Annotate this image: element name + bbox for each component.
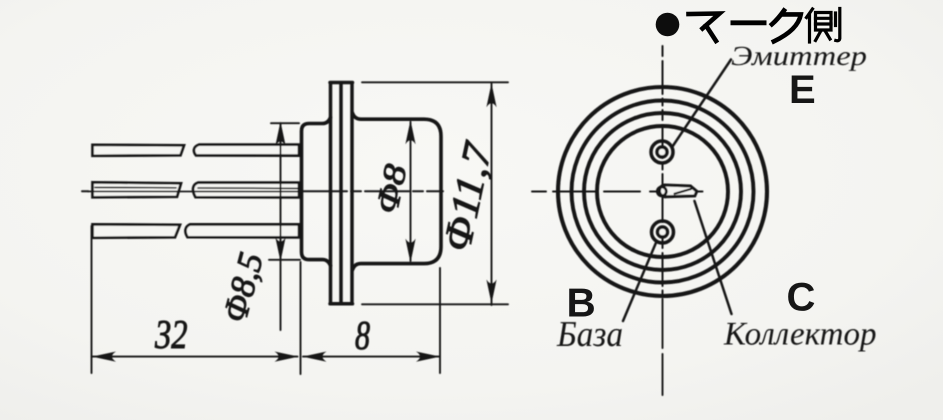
svg-text:B: B <box>567 280 596 326</box>
lead (collector) bottom, segment 2 <box>185 224 299 237</box>
svg-text:32: 32 <box>154 311 187 357</box>
pin E (emitter) <box>651 141 673 163</box>
lead (collector) bottom, segment 1 <box>93 224 181 238</box>
circle 2 <box>572 101 754 283</box>
lead (base) middle, segment 1 <box>93 182 182 197</box>
svg-text:Коллектор: Коллектор <box>723 317 877 353</box>
dimension line phi8.5 <box>269 123 300 330</box>
svg-text:E: E <box>789 68 816 112</box>
svg-text:C: C <box>787 276 816 320</box>
vertical centerline <box>662 46 664 296</box>
leader base <box>623 242 657 322</box>
svg-text:8: 8 <box>355 312 370 358</box>
dimension line phi11.7 <box>491 84 493 306</box>
lead (emitter) top, segment 2 <box>194 145 299 156</box>
collector tab <box>659 185 696 197</box>
leader collector <box>695 201 732 314</box>
katakana MA <box>689 14 720 42</box>
circle 3 <box>584 113 741 270</box>
axis centerline of side view <box>82 190 443 192</box>
extension lines phi11.7 <box>362 82 508 304</box>
katakana long bar <box>731 20 767 25</box>
dimension line phi8 <box>410 122 412 261</box>
extension line middle (32/8) <box>300 262 302 374</box>
outer circle (flange) <box>558 87 767 296</box>
arrowheads 8 <box>303 352 441 362</box>
horizontal centerline <box>532 191 703 193</box>
arrowheads phi11.7 <box>486 83 496 303</box>
katakana KU <box>772 11 801 42</box>
flange (dia 11.7) <box>330 83 353 304</box>
lead (base) axis overlap <box>88 190 298 192</box>
dimension line 32 <box>92 356 298 358</box>
lead (base) inner line <box>95 187 298 188</box>
leader emitter <box>673 60 731 147</box>
mark dot <box>656 13 680 37</box>
arrowheads 32 <box>92 352 299 362</box>
dimension line 8 <box>303 356 440 358</box>
collar (pinch, dia 8.5) outline <box>302 118 331 266</box>
arrowheads phi8.5 <box>275 122 285 262</box>
lead (emitter) top, segment 1 <box>93 145 185 156</box>
lead (base) middle, segment 2 <box>193 183 299 198</box>
extension line left (32) <box>91 226 93 373</box>
arrowheads phi8 <box>405 120 415 262</box>
can body (dia 8) outline <box>353 113 442 270</box>
svg-text:Эмиттер: Эмиттер <box>731 40 867 71</box>
inner circle (can) <box>597 126 728 257</box>
pin B (base) <box>652 221 674 243</box>
extension line right (8) <box>439 268 441 373</box>
kanji GAWA (side) <box>807 9 840 43</box>
